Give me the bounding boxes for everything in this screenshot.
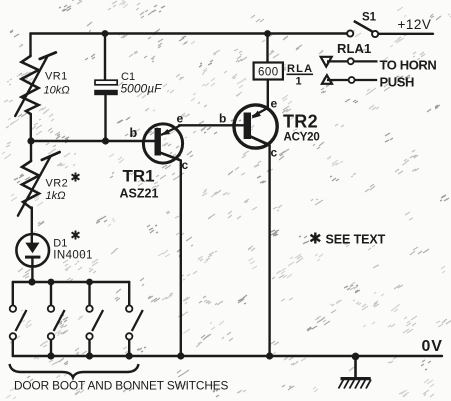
svg-text:5000µF: 5000µF (121, 82, 163, 96)
svg-text:e: e (271, 97, 278, 111)
wire: left rail node A down to VR2 (30, 141, 32, 161)
svg-text:e: e (177, 112, 184, 126)
node: top rail / relay (264, 30, 271, 37)
relay coil RLA (600 ohm) box (254, 63, 283, 80)
capacitor C1 top lead (104, 34, 106, 81)
wire: switch 4 bottom stub (128, 340, 130, 356)
transistor TR1 (ASZ21, pnp) (143, 124, 182, 163)
svg-text:S1: S1 (362, 12, 377, 24)
svg-text:0V: 0V (422, 338, 443, 355)
node: D1 wire / switch top line (28, 278, 35, 285)
wire: through D1 down to switch bank top line (31, 208, 33, 244)
TR2 emitter arrow (pnp) (251, 111, 261, 119)
TR1 emitter arrow (pnp) (161, 129, 170, 135)
svg-text:c: c (271, 146, 278, 160)
relay designator RLA/1 (287, 63, 314, 88)
wire: switch 3 top stub (88, 282, 90, 305)
asterisk for VR2 (72, 173, 80, 182)
door/boot/bonnet switch 4 (126, 306, 143, 340)
svg-text:c: c (182, 158, 189, 172)
TR2 collector lead (251, 137, 269, 145)
node: switch 2 top (48, 279, 55, 286)
VR2 wiper arrow shaft (18, 156, 51, 216)
capacitor C1 bottom lead (104, 95, 106, 141)
transistor TR2 (ACY20, pnp) (234, 105, 277, 148)
wire: 0V bottom rail (13, 355, 442, 357)
relay contact RLA1 upper (TO HORN) (321, 57, 378, 67)
svg-text:1: 1 (296, 76, 302, 88)
VR2 wiper T-bar (42, 152, 60, 160)
wire: left rail from top rail down to VR1 (29, 34, 31, 57)
node: TR2 collector / 0V rail (266, 352, 273, 359)
svg-text:VR1: VR1 (45, 71, 68, 83)
svg-text:TO HORN: TO HORN (380, 58, 437, 73)
svg-text:DOOR BOOT AND BONNET SWITCHES: DOOR BOOT AND BONNET SWITCHES (14, 379, 229, 393)
svg-text:b: b (130, 126, 138, 140)
svg-text:TR2: TR2 (283, 112, 318, 132)
door/boot/bonnet switch 1 (10, 306, 27, 340)
node: switch 3 top (86, 279, 93, 286)
wire: switch 4 top stub (128, 282, 130, 305)
node: switch 2 bottom rail (47, 352, 54, 359)
resistor VR1 (variable, 10k) zigzag (22, 56, 39, 114)
svg-text:VR2: VR2 (46, 178, 69, 190)
svg-text:PUSH: PUSH (380, 75, 415, 90)
svg-text:10kΩ: 10kΩ (44, 85, 70, 97)
diode D1 circle (16, 234, 49, 267)
svg-text:SEE TEXT: SEE TEXT (326, 233, 386, 247)
svg-text:IN4001: IN4001 (53, 249, 92, 261)
wire: relay coil top lead from rail (266, 34, 268, 63)
door/boot/bonnet switch 3 (86, 306, 103, 340)
wire: switch 3 bottom stub (88, 340, 90, 356)
VR1 wiper arrow shaft (15, 56, 48, 116)
brace under switches (10, 364, 139, 378)
switch S1 (347, 21, 378, 37)
svg-text:ACY20: ACY20 (284, 132, 320, 144)
wire: D1 bottom lead to switch line (31, 259, 33, 283)
wire: TR1 collector down to 0V rail (160, 153, 181, 357)
TR1 emitter lead (161, 125, 181, 135)
wire: +12V top rail left of S1 (31, 32, 348, 34)
asterisk for D1 (72, 231, 80, 240)
wire: switch 1 bottom stub (12, 340, 14, 356)
node: ground / 0V rail (352, 353, 360, 361)
svg-text:b: b (219, 112, 226, 126)
wire: switch 2 top stub (50, 282, 52, 305)
wire: switch bank top line (13, 281, 129, 283)
door/boot/bonnet switch 2 (48, 306, 65, 340)
wire: relay coil bottom to TR2 emitter (267, 80, 269, 109)
wire: top rail right of S1 to +12V (378, 33, 433, 35)
VR1 wiper T-bar (40, 52, 56, 59)
node: C1 bottom / base line (102, 137, 109, 144)
svg-text:1kΩ: 1kΩ (46, 190, 66, 202)
node A: left rail / base line (27, 137, 34, 144)
capacitor C1 plates (94, 80, 118, 95)
diode D1 cathode bar (25, 256, 40, 259)
svg-text:ASZ21: ASZ21 (120, 187, 159, 201)
node: top rail / C1 (102, 30, 109, 37)
TR2 emitter lead (252, 108, 268, 117)
resistor VR2 (variable, 1k) zigzag (22, 161, 39, 208)
svg-text:RLA: RLA (287, 63, 313, 75)
wire: switch 1 top stub (12, 282, 14, 305)
node: switch 3 bottom rail (86, 352, 93, 359)
svg-text:D1: D1 (53, 237, 67, 249)
asterisk of SEE TEXT note (311, 233, 321, 244)
diode D1 triangle (25, 243, 39, 254)
wire: node A horizontal to TR1 base (31, 140, 155, 142)
node: TR1 collector / 0V rail (177, 352, 184, 359)
TR1 collector lead (160, 153, 180, 160)
svg-text:+12V: +12V (398, 17, 432, 32)
wire: switch 2 bottom stub (50, 340, 52, 356)
ground symbol (339, 356, 372, 389)
node: switch 4 bottom rail (126, 352, 133, 359)
svg-text:600: 600 (258, 67, 279, 79)
wire: TR2 collector down to 0V rail (251, 137, 270, 357)
wire: TR1 emitter to TR2 base (179, 124, 244, 126)
svg-text:TR1: TR1 (123, 167, 155, 186)
relay contact RLA1 lower (PUSH) (322, 75, 377, 84)
wire: left rail VR1 to node A (30, 114, 32, 141)
svg-text:RLA1: RLA1 (337, 41, 371, 56)
